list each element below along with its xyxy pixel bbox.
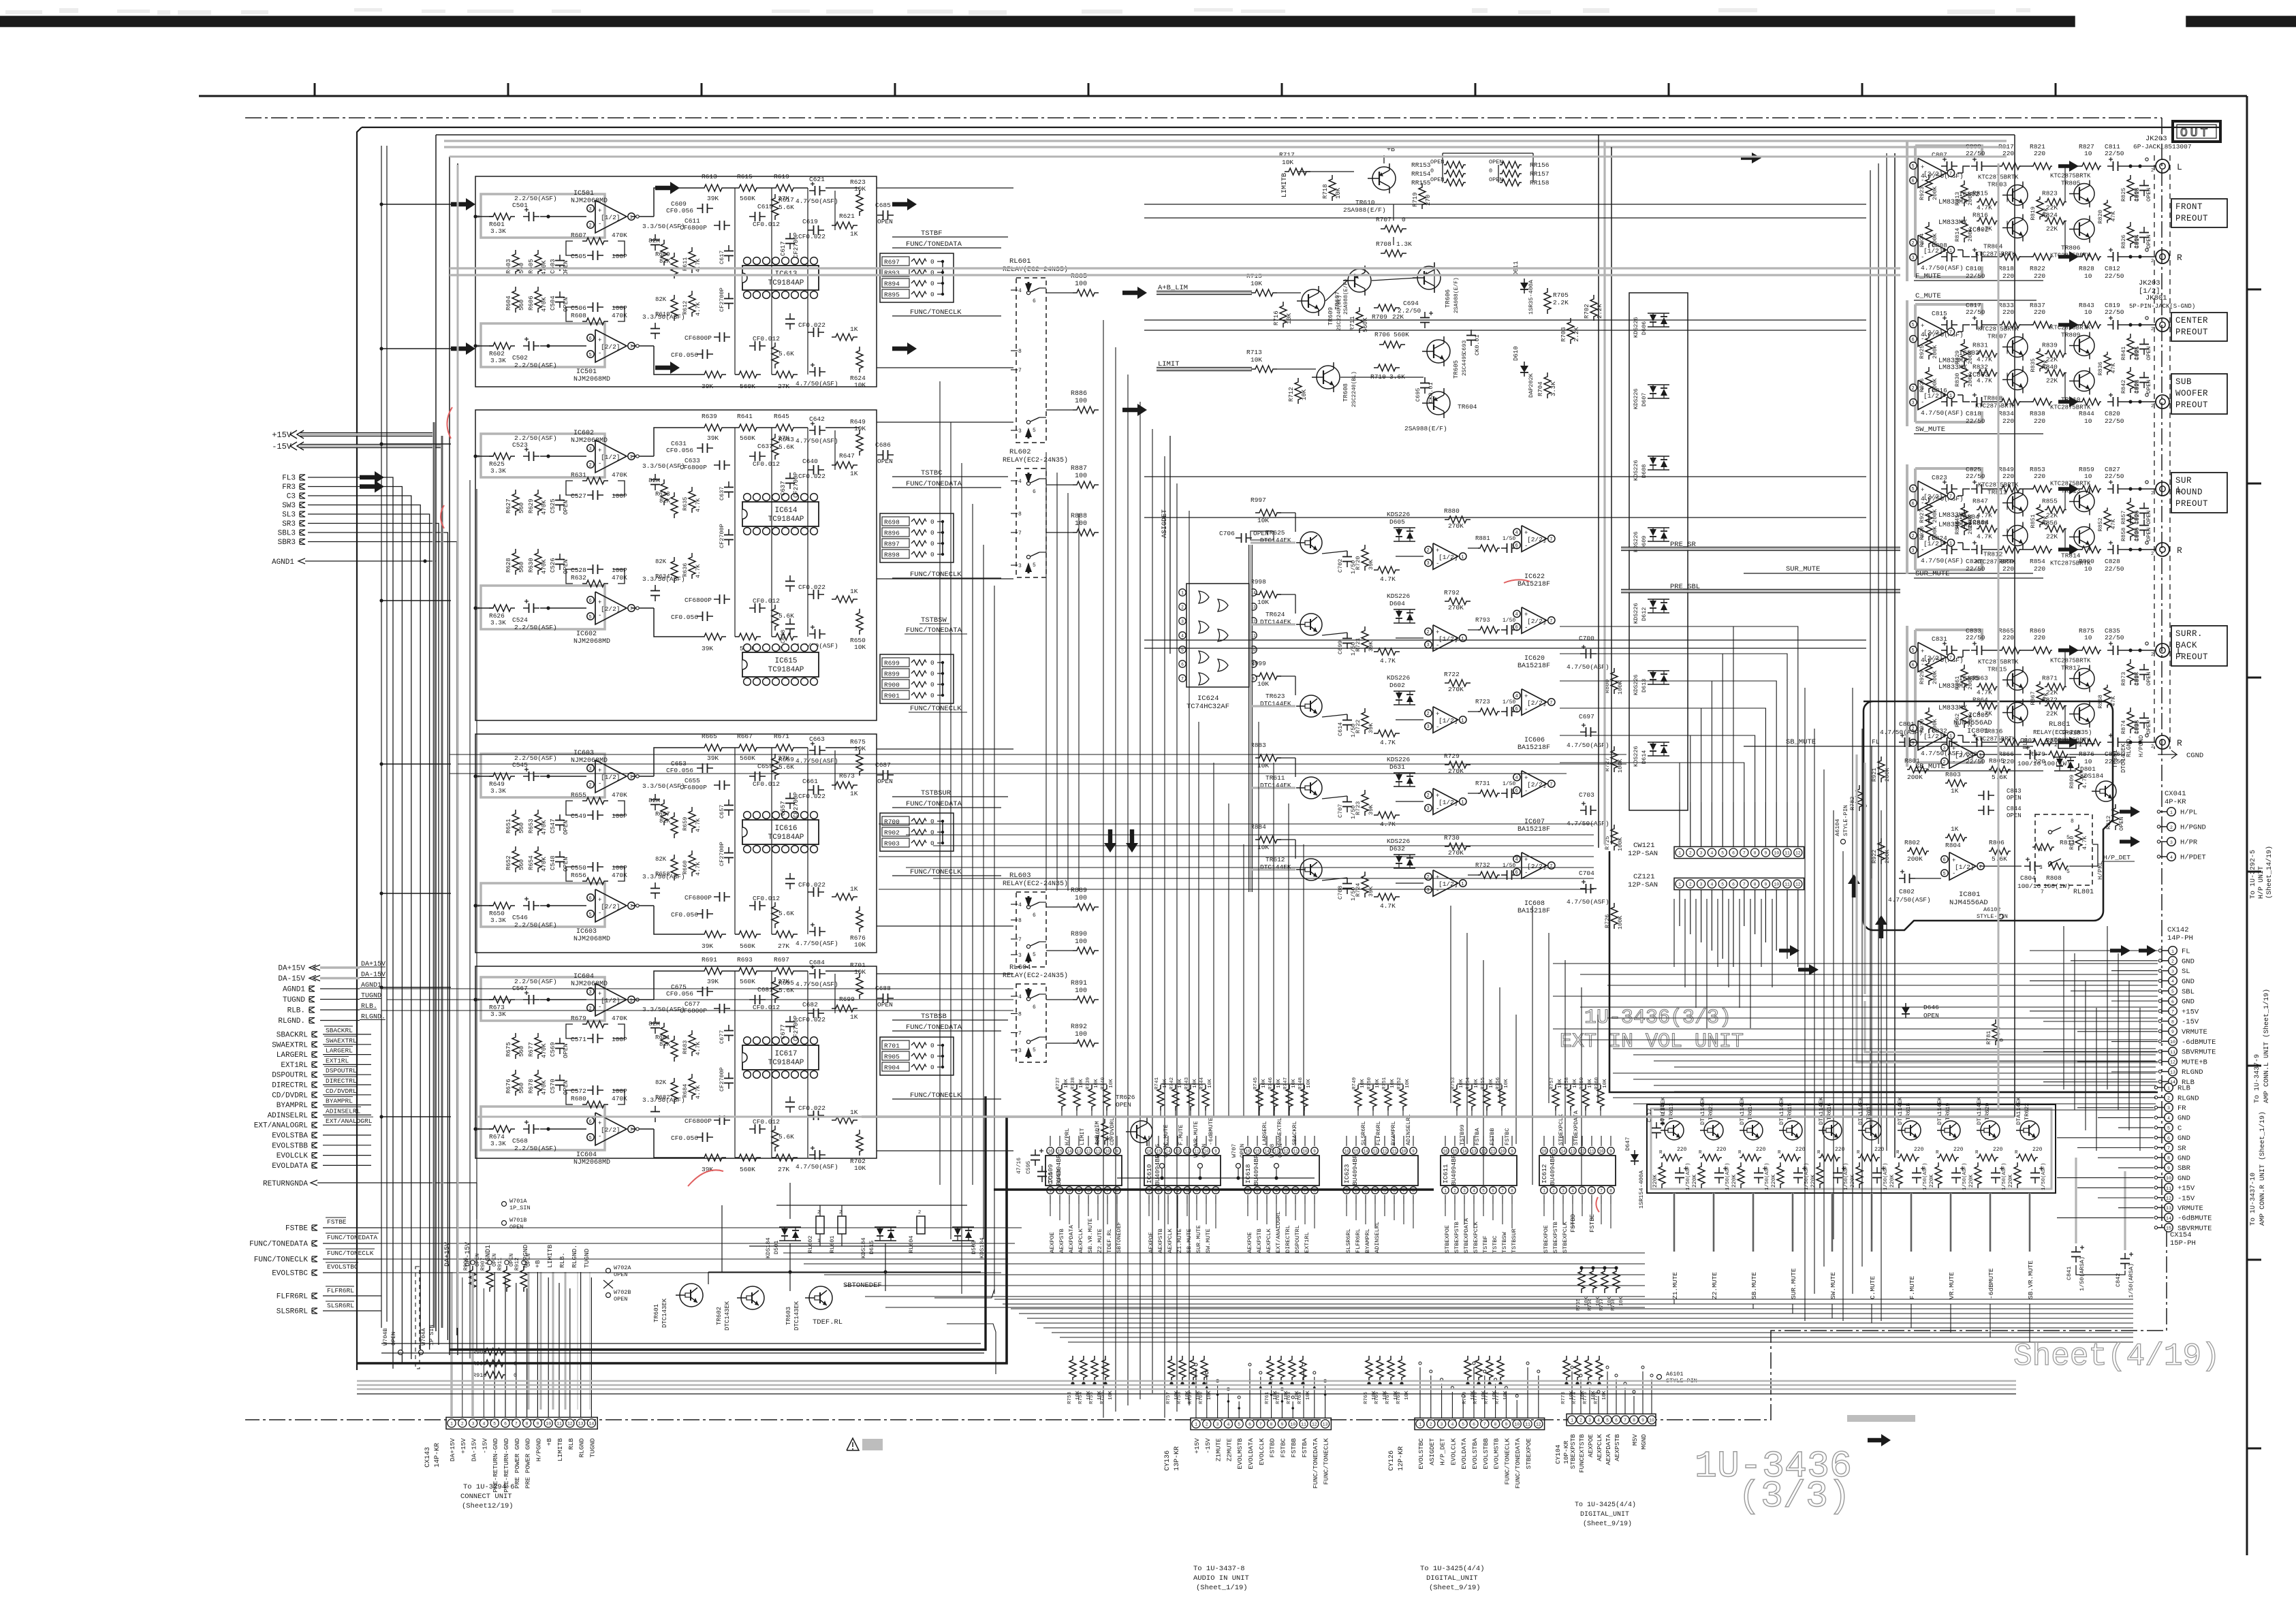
resistor R719 270 <box>1412 183 1432 209</box>
svg-text:10: 10 <box>1500 1149 1505 1154</box>
arrow up B <box>1875 915 1887 938</box>
svg-text:SBVRMUTE: SBVRMUTE <box>2182 1049 2216 1057</box>
svg-text:47K: 47K <box>2043 515 2049 526</box>
svg-text:OPEN: OPEN <box>1056 1169 1063 1182</box>
capacitor coupling <box>1501 789 1517 798</box>
wire <box>320 1009 360 1011</box>
svg-text:220: 220 <box>2032 1147 2043 1153</box>
resistor R709 22K <box>1372 304 1404 321</box>
resistor R716 10K <box>1273 302 1293 328</box>
arrow output <box>2058 544 2079 555</box>
svg-text:5: 5 <box>1482 1189 1485 1194</box>
svg-text:10K: 10K <box>854 1164 866 1172</box>
svg-text:KDS226: KDS226 <box>1633 460 1639 481</box>
capacitor 1/50(ASF) TR614 <box>1754 1162 1770 1190</box>
svg-text:IC622: IC622 <box>1524 573 1545 581</box>
svg-text:R731: R731 <box>1475 780 1490 787</box>
wire feedback <box>566 801 578 815</box>
net labels above IC612 <box>1558 1110 1579 1145</box>
capacitor C572 100P <box>571 1085 627 1095</box>
resistor R884 10K <box>1251 823 1295 851</box>
svg-text:SR3: SR3 <box>282 520 296 528</box>
svg-text:39K: 39K <box>1368 804 1374 815</box>
op-amp IC802 LM833MX [1/2] <box>1909 219 1989 265</box>
svg-text:CF0.056: CF0.056 <box>666 207 693 214</box>
resistor 220 TR619 <box>1936 1147 1964 1161</box>
svg-text:R902: R902 <box>884 829 900 837</box>
svg-text:FUNC/TONEDATA: FUNC/TONEDATA <box>249 1241 308 1249</box>
wire stage2 to network <box>654 608 700 637</box>
svg-text:C802: C802 <box>1899 888 1915 895</box>
svg-text:R705: R705 <box>1553 291 1569 299</box>
svg-text:AGND1: AGND1 <box>272 558 294 567</box>
svg-text:TR603: TR603 <box>785 1307 792 1325</box>
resistor group R765-R768 10K <box>1576 1266 1624 1311</box>
svg-text:1P SIN: 1P SIN <box>428 1324 435 1346</box>
svg-text:TSTBC: TSTBC <box>921 469 943 477</box>
wire limiter links <box>1277 155 1434 377</box>
svg-text:1K: 1K <box>1951 787 1959 795</box>
svg-text:C502: C502 <box>512 354 528 362</box>
svg-text:CF0.022: CF0.022 <box>798 1104 825 1112</box>
net labels above IC623 <box>1360 1114 1412 1145</box>
svg-text:(3/3): (3/3) <box>1738 1475 1851 1518</box>
svg-text:2SC2240(BL): 2SC2240(BL) <box>1351 371 1357 407</box>
svg-text:EVOLSTBC: EVOLSTBC <box>272 1270 308 1278</box>
resistor R707 0 <box>1376 216 1406 232</box>
wire mute route <box>1990 1304 2133 1337</box>
capacitor C802 4.7/50(ASF) <box>1888 870 1931 904</box>
wire op input <box>475 999 493 1000</box>
resistor terminator group below IC623 <box>1364 1356 1410 1404</box>
svg-text:R757: R757 <box>1550 1077 1555 1090</box>
svg-text:2: 2 <box>2151 404 2154 409</box>
capacitor C637 CF0.012 <box>749 443 780 468</box>
svg-text:To 1U-3437-8: To 1U-3437-8 <box>1193 1565 1245 1573</box>
op-amp IC805 LM833MX [1/2] <box>1909 705 1989 750</box>
svg-text:R610: R610 <box>655 311 670 318</box>
resistor 220K TR617 <box>1850 1162 1863 1188</box>
net labels below IC618 <box>1246 1211 1310 1253</box>
wire -15V gray feed <box>300 445 442 447</box>
svg-text:TR623: TR623 <box>1265 693 1285 700</box>
svg-text:4: 4 <box>1018 288 1022 294</box>
svg-text:1/50(ASF): 1/50(ASF) <box>1962 1162 1968 1190</box>
svg-text:R615: R615 <box>737 173 753 180</box>
svg-text:RELAY(EC2-24N35): RELAY(EC2-24N35) <box>1003 972 1068 980</box>
resistor R885 100 <box>1046 273 1099 296</box>
svg-text:11: 11 <box>1293 1149 1298 1154</box>
svg-text:4.7K: 4.7K <box>1977 710 1992 718</box>
connector JK801 label <box>2129 294 2195 310</box>
frame tick top <box>314 83 316 96</box>
svg-text:-: - <box>1921 740 1924 746</box>
svg-text:7: 7 <box>1743 851 1746 856</box>
svg-text:LM833MX: LM833MX <box>1938 199 1967 206</box>
resistor RR154 0 <box>1411 168 1466 178</box>
wire op output <box>631 1128 654 1130</box>
wire op input <box>475 456 493 457</box>
svg-text:LIMIT: LIMIT <box>1079 1128 1086 1145</box>
svg-text:OPEN: OPEN <box>2118 817 2125 831</box>
capacitor C834 22/50 <box>1966 733 1987 765</box>
svg-text:TR809: TR809 <box>2061 332 2081 339</box>
svg-text:27K: 27K <box>778 383 789 390</box>
wire IC pin drops IC609 <box>1050 1204 1117 1228</box>
capacitor C663 4.7/50(ASF) <box>796 735 838 765</box>
svg-text:C708: C708 <box>1337 886 1344 900</box>
svg-text:12: 12 <box>1086 1149 1091 1154</box>
svg-text:OPEN: OPEN <box>563 820 569 835</box>
svg-text:3: 3 <box>1427 888 1430 893</box>
resistor 4.7K <box>682 1074 702 1100</box>
svg-text:14: 14 <box>1560 1149 1566 1154</box>
svg-text:560K: 560K <box>740 383 755 390</box>
resistor 220K TR614 <box>1731 1162 1744 1188</box>
svg-text:R804: R804 <box>1945 842 1961 849</box>
svg-text:R: R <box>1738 1150 1742 1156</box>
svg-text:3: 3 <box>589 990 592 996</box>
svg-text:4: 4 <box>482 1422 485 1427</box>
svg-text:ASIGDET: ASIGDET <box>1428 1438 1436 1465</box>
svg-text:AEXPOE: AEXPOE <box>1246 1232 1253 1253</box>
diode D614 KDS226 <box>1633 742 1669 767</box>
svg-text:9: 9 <box>2171 1030 2174 1034</box>
svg-text:C617: C617 <box>780 241 787 256</box>
svg-text:RLGND: RLGND <box>578 1438 586 1458</box>
svg-text:D501: D501 <box>773 1241 780 1254</box>
svg-text:220: 220 <box>1953 1147 1964 1153</box>
transistor TR605 2SC4495 <box>1422 336 1468 379</box>
svg-text:TSTBSUR: TSTBSUR <box>1511 1228 1517 1253</box>
svg-text:10: 10 <box>2084 634 2092 641</box>
svg-text:C682: C682 <box>802 1001 818 1008</box>
svg-text:TC74HC32AF: TC74HC32AF <box>1186 703 1229 711</box>
capacitor 1/50(ASF) TR620 <box>1991 1162 2007 1190</box>
svg-text:1K: 1K <box>850 470 858 477</box>
svg-text:560K: 560K <box>740 754 755 762</box>
svg-text:R873: R873 <box>2120 672 2127 686</box>
svg-text:2SC2240(BL): 2SC2240(BL) <box>1336 295 1342 331</box>
svg-text:AEXPSTB: AEXPSTB <box>1614 1434 1621 1461</box>
svg-text:BA15218F: BA15218F <box>1517 744 1550 752</box>
svg-text:3: 3 <box>1700 882 1703 887</box>
svg-text:2: 2 <box>1912 534 1915 539</box>
svg-text:220: 220 <box>2002 308 2014 316</box>
svg-text:C547: C547 <box>550 818 556 833</box>
svg-text:1: 1 <box>630 775 633 780</box>
svg-text:10K: 10K <box>1489 1079 1494 1088</box>
svg-text:4: 4 <box>1515 694 1518 699</box>
resistor 22K B <box>2042 520 2066 541</box>
wire <box>323 1155 371 1156</box>
svg-text:470K: 470K <box>541 500 548 515</box>
transistor TR606 2SA988(E/F) <box>1413 263 1460 313</box>
wire gray rail <box>475 434 605 629</box>
svg-text:3.3K: 3.3K <box>490 619 506 626</box>
svg-text:STYLE-PIN: STYLE-PIN <box>1977 913 2008 920</box>
svg-text:MUTE+B: MUTE+B <box>2182 1058 2207 1066</box>
svg-text:3.3/50(ASF): 3.3/50(ASF) <box>642 1006 685 1013</box>
capacitor CF2700P <box>719 799 734 818</box>
svg-text:PRE_SBL: PRE_SBL <box>1670 583 1700 591</box>
wire volume row <box>1295 840 1518 883</box>
capacitor C524 2.2/50(ASF) <box>512 599 557 631</box>
svg-text:R903: R903 <box>884 840 900 848</box>
wire output path <box>2065 400 2156 403</box>
svg-text:R617: R617 <box>779 196 794 204</box>
capacitor 1/50 <box>1337 878 1357 901</box>
svg-text:IC624: IC624 <box>1197 695 1219 703</box>
net labels below IC609 <box>1049 1218 1122 1253</box>
svg-text:R891: R891 <box>1071 980 1087 987</box>
IC IC611 BU4094BF <box>1441 1136 1517 1204</box>
wire TDEF <box>708 1205 996 1374</box>
svg-text:1/50: 1/50 <box>1503 536 1515 542</box>
diode D610 DAP202K <box>1513 346 1535 398</box>
svg-text:6: 6 <box>1473 1422 1475 1427</box>
svg-text:OPEN: OPEN <box>563 559 569 574</box>
svg-text:R898: R898 <box>884 552 900 559</box>
wire CY104 risers <box>1571 1366 1653 1414</box>
svg-text:10K: 10K <box>1335 187 1342 199</box>
svg-text:14: 14 <box>1363 1149 1368 1154</box>
svg-text:C549: C549 <box>571 812 586 820</box>
wire feedback <box>566 569 578 584</box>
svg-text:R: R <box>1817 1150 1821 1156</box>
svg-text:R700: R700 <box>884 818 900 826</box>
svg-text:A6101: A6101 <box>1666 1371 1684 1378</box>
svg-text:R897: R897 <box>884 541 900 548</box>
svg-text:-: - <box>1436 560 1439 567</box>
svg-text:KDS226: KDS226 <box>1633 603 1639 624</box>
svg-text:4: 4 <box>1451 1422 1453 1427</box>
svg-text:1K: 1K <box>850 230 858 238</box>
svg-text:7: 7 <box>2167 1146 2170 1151</box>
diode D801 KDS184 <box>2054 757 2104 780</box>
svg-text:RELAY(EC2-24N35): RELAY(EC2-24N35) <box>1003 456 1068 464</box>
resistor R722 270K <box>1444 671 1471 693</box>
wire feedback <box>566 481 578 495</box>
capacitor 1/50(ASF) TR618 <box>1912 1162 1928 1190</box>
svg-text:12: 12 <box>1382 1149 1387 1154</box>
svg-text:RL604: RL604 <box>908 1235 915 1253</box>
svg-text:8: 8 <box>2071 818 2074 825</box>
resistor R859 10 <box>2079 466 2101 492</box>
svg-text:[2/2]: [2/2] <box>601 903 620 910</box>
resistor 220K TR621 <box>1692 1162 1705 1188</box>
svg-text:7: 7 <box>1018 368 1022 374</box>
svg-text:R729: R729 <box>1444 752 1460 760</box>
svg-text:1: 1 <box>630 455 633 460</box>
relay RL601 EC2-24N35 <box>1003 257 1068 443</box>
svg-text:C677: C677 <box>719 1030 725 1044</box>
svg-text:5.6K: 5.6K <box>1992 774 2007 781</box>
svg-text:6: 6 <box>1732 851 1735 856</box>
svg-text:FLFR6RL: FLFR6RL <box>327 1287 354 1294</box>
svg-text:R660: R660 <box>682 861 689 874</box>
svg-text:10K: 10K <box>1390 1079 1396 1088</box>
resistor 5.6K <box>772 605 794 631</box>
wire network verticals <box>735 748 835 934</box>
capacitor C677 CF6800P <box>680 1000 730 1015</box>
svg-text:7: 7 <box>1550 537 1552 543</box>
svg-text:10K: 10K <box>1286 313 1293 324</box>
resistor R818 220 <box>1998 253 2021 280</box>
svg-text:R855: R855 <box>2042 498 2058 505</box>
svg-text:10K: 10K <box>1474 1079 1479 1088</box>
svg-text:[2/2]: [2/2] <box>1923 493 1943 500</box>
capacitor C828 22/50 <box>2105 541 2124 573</box>
transistor TR812 KTC2875BRTK <box>1975 522 2028 566</box>
svg-text:10K: 10K <box>1261 1079 1267 1088</box>
svg-text:4.7/50(ASF): 4.7/50(ASF) <box>796 940 838 947</box>
label box FRONT PREOUT PREOUT <box>2171 199 2227 227</box>
frame tick top <box>1861 83 1863 96</box>
wire output path <box>2065 547 2156 551</box>
svg-text:SW.MUTE: SW.MUTE <box>1205 1228 1212 1253</box>
svg-text:STBEXPSTB: STBEXPSTB <box>1569 1434 1577 1469</box>
svg-text:1: 1 <box>2170 810 2173 815</box>
arrow output top <box>655 182 680 194</box>
wire IC pin drops IC612 <box>1544 1204 1611 1228</box>
resistor 39K <box>700 1154 726 1173</box>
svg-text:4.7/50(ASF): 4.7/50(ASF) <box>796 197 838 205</box>
svg-text:15: 15 <box>1551 1149 1556 1154</box>
capacitor OPEN B <box>2134 372 2152 394</box>
svg-text:12: 12 <box>1312 1422 1317 1427</box>
svg-text:1: 1 <box>1461 882 1464 887</box>
svg-text:SLSR6RL: SLSR6RL <box>1360 1121 1367 1145</box>
wire mute drop <box>1791 1193 1793 1252</box>
net labels below IC623 <box>1345 1222 1381 1253</box>
wire CY136 risers <box>1195 1363 1327 1418</box>
svg-text:R809: R809 <box>2069 775 2075 789</box>
svg-text:1/50(ASF): 1/50(ASF) <box>1883 1162 1889 1190</box>
svg-text:8: 8 <box>526 1422 529 1427</box>
resistor R810 4.7K <box>2069 825 2088 850</box>
resistor R678 470K <box>528 1070 548 1096</box>
resistor 27K 27K <box>648 797 667 825</box>
wire gray long rails middle <box>450 157 2015 1328</box>
svg-text:KDS184: KDS184 <box>860 1237 867 1258</box>
capacitor C506 100P <box>571 302 627 312</box>
resistor 39K <box>1355 708 1374 734</box>
svg-text:AMP CONN.R UNIT (Sheet_1/19): AMP CONN.R UNIT (Sheet_1/19) <box>2259 1111 2267 1226</box>
transistor TR810 KTC2875BRTK <box>2050 368 2094 411</box>
svg-text:3.3K: 3.3K <box>490 917 506 924</box>
svg-text:220: 220 <box>2034 272 2045 280</box>
resistor 220 TR622 <box>2015 1147 2043 1161</box>
svg-text:560: 560 <box>518 1046 525 1057</box>
svg-text:1K: 1K <box>1951 825 1959 833</box>
wire IC pin drops IC618 <box>1248 1204 1315 1228</box>
resistor R643 5.6K <box>772 434 794 460</box>
svg-text:82K: 82K <box>655 558 667 565</box>
svg-text:IC617: IC617 <box>774 1050 797 1058</box>
resistor R805 5.6K <box>1989 757 2011 781</box>
svg-text:47K: 47K <box>2043 207 2049 218</box>
svg-text:RELAY(EC2-24N35): RELAY(EC2-24N35) <box>1003 266 1068 274</box>
wire <box>320 1020 360 1021</box>
connector CX143 14P-KR <box>424 1417 597 1492</box>
svg-text:KDS226: KDS226 <box>1387 592 1411 600</box>
svg-text:H/PGND: H/PGND <box>2180 824 2206 832</box>
svg-text:R830: R830 <box>1954 373 1961 387</box>
resistor 5.6K <box>772 1126 794 1151</box>
svg-text:R814: R814 <box>1954 228 1961 242</box>
resistor RR158 OPEN <box>1489 176 1550 187</box>
svg-text:SBR3: SBR3 <box>278 539 296 547</box>
svg-text:CX041: CX041 <box>2165 790 2186 798</box>
svg-text:RLGND.: RLGND. <box>2126 735 2133 757</box>
svg-text:SUR: SUR <box>2175 476 2192 486</box>
capacitor C675 CF0.056 <box>666 983 713 998</box>
svg-text:2.2/50(ASF): 2.2/50(ASF) <box>514 754 557 762</box>
svg-text:47K: 47K <box>2110 518 2117 529</box>
svg-text:100K: 100K <box>1617 680 1624 695</box>
svg-text:DA-15V: DA-15V <box>471 1438 478 1462</box>
svg-text:470K: 470K <box>541 1043 548 1058</box>
svg-text:BU4094BF: BU4094BF <box>1253 1154 1260 1186</box>
connector JK203 label <box>2133 135 2192 150</box>
svg-text:R818: R818 <box>1998 265 2014 272</box>
resistor R801 200K <box>1904 757 1929 781</box>
svg-text:-: - <box>1921 177 1924 184</box>
svg-text:R753: R753 <box>1067 1391 1073 1404</box>
resistor R890 100 <box>1046 931 1099 954</box>
resistor R656 470K <box>571 872 627 885</box>
svg-text:15: 15 <box>1353 1149 1359 1154</box>
svg-text:-: - <box>1921 500 1924 507</box>
svg-text:2: 2 <box>1689 882 1692 887</box>
svg-text:CF0.012: CF0.012 <box>753 1004 780 1011</box>
svg-text:R822: R822 <box>2030 265 2045 272</box>
svg-text:R: R <box>1857 1150 1860 1156</box>
svg-text:10: 10 <box>1649 1418 1654 1423</box>
svg-text:PREOUT: PREOUT <box>2175 214 2208 223</box>
wire headphone internals <box>1872 742 2125 878</box>
svg-text:1: 1 <box>1678 851 1681 856</box>
resistor R817 220 <box>1998 143 2021 170</box>
svg-text:3: 3 <box>1427 561 1430 567</box>
wire heavy bus C <box>994 1188 1434 1190</box>
resistor 4.7K <box>682 291 702 317</box>
svg-text:C619: C619 <box>802 218 818 225</box>
svg-text:+15V: +15V <box>272 430 292 440</box>
svg-text:C693: C693 <box>1461 340 1468 354</box>
svg-text:5.6K: 5.6K <box>779 612 794 620</box>
svg-text:22/50: 22/50 <box>2105 272 2124 280</box>
svg-text:RR158: RR158 <box>1530 179 1550 187</box>
svg-text:3: 3 <box>1562 1189 1564 1194</box>
wire <box>726 970 735 972</box>
resistor R812 OPEN <box>2105 804 2125 831</box>
svg-text:10: 10 <box>1599 1149 1604 1154</box>
svg-text:RETURNGNDA: RETURNGNDA <box>263 1180 308 1188</box>
svg-text:22/50: 22/50 <box>2105 150 2124 157</box>
svg-text:10: 10 <box>1290 1422 1295 1427</box>
resistor pull-up group above IC612 <box>1550 1077 1608 1117</box>
svg-text:15: 15 <box>1255 1149 1260 1154</box>
svg-text:-: - <box>1524 543 1528 550</box>
svg-text:GND: GND <box>2182 957 2195 966</box>
svg-text:R678: R678 <box>528 1079 535 1094</box>
svg-text:SW3: SW3 <box>282 502 296 510</box>
resistor 82K <box>655 1034 678 1062</box>
svg-text:GND: GND <box>2177 1175 2190 1183</box>
resistor 200K vertical A <box>1919 175 1938 201</box>
